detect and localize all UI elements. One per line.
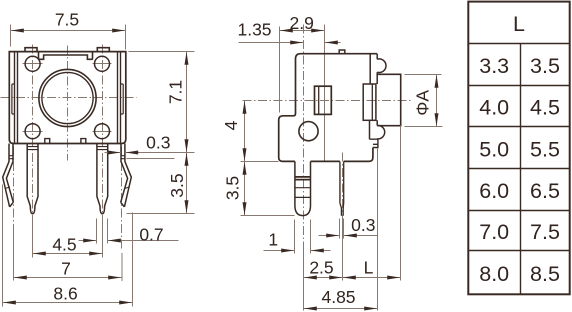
svg-text:L: L [364, 257, 374, 277]
row line 1 [469, 85, 570, 87]
svg-text:7.5: 7.5 [530, 220, 560, 244]
column divider [520, 44, 522, 295]
tick through bottom-right hole [93, 131, 112, 133]
svg-text:7.5: 7.5 [55, 10, 79, 30]
upper dome [377, 59, 386, 73]
svg-text:0.7: 0.7 [139, 224, 163, 244]
svg-text:1: 1 [268, 230, 278, 250]
window inner lines [318, 86, 320, 114]
lower dome [377, 125, 385, 138]
contact plate inner line [371, 84, 373, 120]
ext 7 left [13, 225, 15, 281]
body inner frame left [17, 52, 19, 144]
top tab left [25, 48, 37, 52]
left pin crimps [295, 177, 311, 180]
seating ext left [241, 161, 279, 163]
inner leg right [97, 144, 108, 214]
hole top-left [25, 56, 40, 71]
1.35 leader and left arrow [239, 42, 304, 44]
centerline horizontal middle view [243, 100, 414, 102]
outer leg left [3, 144, 14, 207]
ext plate right [377, 149, 379, 311]
bottom bump left [45, 139, 50, 144]
svg-text:6.5: 6.5 [530, 179, 560, 203]
inner leg left crimps [27, 147, 38, 150]
lower block [370, 120, 378, 139]
top recess stepped line [39, 52, 93, 59]
body outline [279, 54, 378, 162]
table outer border [468, 2, 569, 295]
ext line A [279, 27, 281, 113]
hole top-right [95, 56, 110, 71]
lower nub [370, 139, 378, 147]
inner leg left [27, 144, 38, 214]
centerline right hole column [102, 45, 104, 223]
svg-text:5.5: 5.5 [530, 138, 560, 162]
hole circle [299, 122, 318, 141]
dim line 4.85 [304, 308, 378, 310]
ext 0.3 right [343, 219, 345, 239]
ext 0.3 left [339, 219, 341, 239]
dim line phiA [436, 75, 438, 127]
dim line 2.5 [304, 277, 343, 279]
right side slot [121, 84, 124, 114]
svg-text:8.5: 8.5 [530, 262, 560, 286]
centerline vertical body center [67, 46, 69, 161]
dim line 7.1 [186, 52, 188, 153]
button inner circle [42, 72, 93, 123]
svg-text:4.5: 4.5 [530, 96, 560, 120]
0.3 left arrow [319, 235, 340, 237]
ext right pin center bottom [342, 223, 344, 281]
ext phiA bottom [405, 126, 443, 128]
dim line 4.5 [33, 253, 103, 255]
centerline right pin [342, 153, 344, 223]
svg-text:6.0: 6.0 [479, 179, 509, 203]
ext 0.7 left [96, 219, 98, 244]
tick through top-right hole [93, 63, 112, 65]
ext 7.5 right [125, 25, 127, 50]
ext line C [324, 25, 326, 162]
0.3 right arrow [344, 235, 378, 237]
window rect [315, 86, 332, 114]
1 left arrow [264, 250, 295, 252]
dimensions of middle view [239, 31, 443, 311]
dimensions of left view [3, 25, 195, 307]
top tab right [97, 48, 109, 52]
ext L right / shaft [400, 126, 402, 281]
svg-text:2.9: 2.9 [290, 13, 314, 33]
0.7 right arrow [108, 240, 179, 242]
tick through top-left hole [23, 63, 43, 65]
header bottom line [469, 43, 570, 45]
upper wall segment [369, 54, 371, 84]
upper right edge above dome [376, 54, 378, 84]
row line 5 [469, 250, 570, 252]
body outer rect [9, 52, 126, 144]
button shaft [377, 74, 401, 125]
dim line 7.5 [11, 30, 126, 32]
svg-text:0.3: 0.3 [351, 215, 375, 235]
1.35 right arrow [325, 42, 341, 44]
contact plate rect [363, 84, 376, 120]
dim line 2.9 [280, 30, 325, 32]
svg-text:3.5: 3.5 [223, 176, 243, 200]
svg-text:0.3: 0.3 [146, 133, 170, 153]
ext 8.6 right [132, 213, 134, 307]
svg-text:3.5: 3.5 [167, 173, 187, 197]
ext 0.7 right [107, 219, 109, 244]
short line under 0.3 [127, 158, 175, 160]
ext 7 right [121, 253, 123, 281]
svg-text:8.0: 8.0 [479, 262, 509, 286]
svg-text:8.6: 8.6 [53, 283, 77, 303]
body inner frame right [117, 52, 119, 144]
centerline left outer leg [13, 147, 15, 225]
ext phiA top [405, 74, 442, 76]
outer leg right crimps [121, 156, 129, 189]
bottom bump right [81, 139, 86, 144]
ext 4.5 right [102, 219, 104, 258]
ext 8.6 left [2, 185, 4, 307]
ext left pin center bottom solid [303, 249, 305, 311]
row line 4 [469, 210, 570, 212]
body inner wall right [120, 52, 122, 144]
svg-text:1.35: 1.35 [237, 20, 271, 40]
left pin [295, 161, 311, 215]
row line 3 [469, 168, 570, 170]
outer leg right [121, 144, 132, 207]
seating line right part with 0.3 arrow [125, 152, 195, 154]
svg-text:ΦA: ΦA [413, 90, 433, 116]
svg-text:3.3: 3.3 [479, 54, 509, 78]
svg-text:4.5: 4.5 [52, 235, 76, 255]
1 right arrow [311, 250, 331, 252]
right pin inner line [340, 165, 342, 201]
svg-text:7: 7 [61, 258, 71, 278]
ext 7.1 top [129, 51, 195, 53]
row line 2 [469, 126, 570, 128]
top nub [339, 50, 345, 54]
inner leg right crimps [97, 147, 108, 150]
svg-text:4: 4 [221, 120, 241, 130]
right pin [340, 161, 344, 215]
hole bottom-right [95, 124, 110, 139]
ext 1 left [294, 220, 296, 254]
seating line left part with 0.3 arrow [105, 152, 122, 154]
centerline left hole column [32, 45, 34, 223]
body inner wall left [14, 52, 16, 144]
dim line L [343, 277, 401, 279]
centerline right outer leg [121, 147, 123, 251]
dim line 4 [244, 101, 246, 162]
outer leg left crimps [5, 156, 13, 189]
svg-text:4.85: 4.85 [321, 287, 355, 307]
dim line 3.5 mid [244, 162, 246, 216]
dim line 8.6 [3, 302, 133, 304]
button outer circle [39, 69, 96, 126]
centerline left pin [303, 25, 305, 311]
svg-text:7.0: 7.0 [479, 220, 509, 244]
0.7 left arrow [79, 240, 97, 242]
ext 3.5 bottom mid [241, 215, 295, 217]
ext 7.5 left [10, 25, 12, 47]
ext 3.5 bottom [127, 213, 195, 215]
left side slot [12, 84, 15, 114]
svg-text:7.1: 7.1 [166, 80, 186, 104]
ext 1 right [310, 220, 312, 254]
dim line 7 [14, 277, 122, 279]
svg-text:5.0: 5.0 [479, 138, 509, 162]
svg-text:2.5: 2.5 [309, 257, 333, 277]
tick through bottom-left hole [23, 131, 43, 133]
dim line 3.5 [186, 153, 188, 214]
svg-text:L: L [513, 12, 525, 36]
centerline horizontal body center [1, 97, 137, 99]
svg-text:4.0: 4.0 [479, 96, 509, 120]
hole bottom-left [25, 124, 40, 139]
ext 4.5 left [32, 219, 34, 258]
svg-text:3.5: 3.5 [530, 54, 560, 78]
